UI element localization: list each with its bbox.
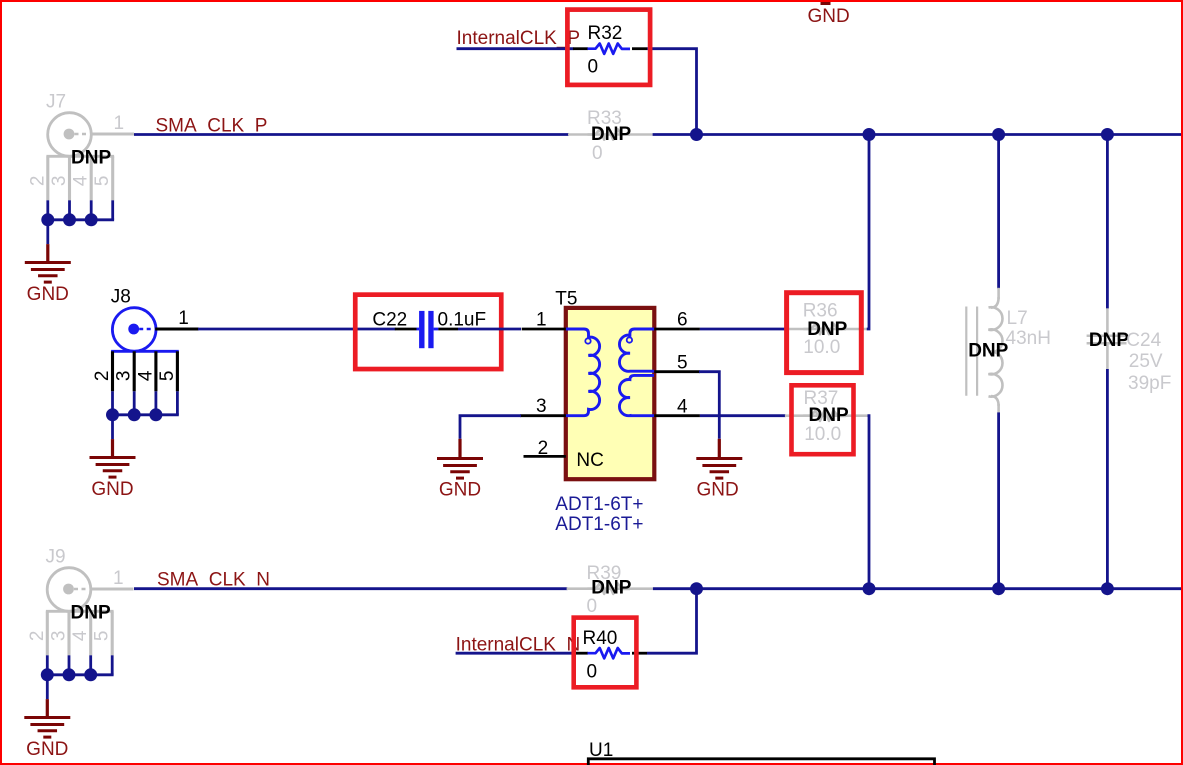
J7 pin 1 — [91, 132, 135, 135]
ground below J7 — [46, 220, 49, 244]
svg-text:2: 2 — [92, 371, 113, 382]
highlight box R37 — [792, 385, 854, 454]
J9 pin 2 — [46, 611, 49, 655]
svg-text:L7: L7 — [1007, 308, 1028, 329]
wire SMA_CLK_N left segment — [134, 587, 568, 590]
junction — [1101, 128, 1114, 141]
highlight box R40 — [574, 618, 637, 688]
svg-text:0: 0 — [587, 596, 598, 617]
svg-text:1: 1 — [113, 568, 124, 589]
junction — [863, 128, 876, 141]
svg-text:InternalCLK_P: InternalCLK_P — [457, 28, 581, 49]
svg-text:GND: GND — [26, 739, 68, 760]
junction — [106, 408, 119, 421]
T5 pin 6 — [654, 328, 700, 331]
wire L7 down to SMA_CLK_N — [997, 412, 1000, 588]
ground (top, clipped) — [821, 2, 831, 5]
svg-text:3: 3 — [114, 371, 135, 382]
svg-text:43nH: 43nH — [1006, 328, 1051, 349]
svg-text:4: 4 — [71, 175, 92, 186]
svg-text:GND: GND — [808, 6, 850, 27]
J9 pin 1 — [90, 587, 134, 590]
junction — [690, 582, 703, 595]
wire T5 pin4 to R37 — [700, 414, 786, 417]
svg-text:GND: GND — [439, 480, 481, 501]
capacitor C24 (DNP) — [1087, 308, 1172, 394]
svg-text:2: 2 — [27, 176, 48, 187]
svg-text:C22: C22 — [372, 310, 407, 331]
svg-text:0: 0 — [592, 143, 603, 164]
svg-text:DNP: DNP — [1089, 330, 1129, 351]
svg-text:C24: C24 — [1126, 330, 1161, 351]
junction — [149, 408, 162, 421]
junction — [863, 582, 876, 595]
J9 pin block bar — [46, 610, 114, 613]
J8 pin 5 — [176, 351, 179, 391]
J8 pin 2 — [111, 351, 114, 391]
wire SMA_CLK_P right segment — [653, 133, 1181, 136]
J7 pin 3 — [68, 156, 71, 200]
wire T5 pin6 to R36 — [700, 328, 785, 331]
T5 pin 4 — [654, 414, 700, 417]
T5 secondary winding upper — [619, 329, 654, 371]
svg-text:39pF: 39pF — [1128, 373, 1171, 394]
highlight box R32 — [567, 10, 650, 85]
wire SMA_CLK_N right segment — [653, 587, 1181, 590]
svg-text:5: 5 — [92, 176, 113, 187]
junction — [992, 128, 1005, 141]
svg-text:ADT1-6T+: ADT1-6T+ — [555, 494, 643, 515]
highlight box C22 — [355, 295, 501, 369]
svg-text:4: 4 — [677, 396, 688, 417]
J7 pin 2 — [46, 156, 49, 200]
svg-text:R40: R40 — [583, 628, 618, 649]
wire down to C24 — [1106, 135, 1109, 309]
resistor R40 — [573, 628, 647, 683]
J8 pin block bar — [111, 350, 179, 353]
svg-text:GND: GND — [27, 284, 69, 305]
junction — [690, 128, 703, 141]
J9 ground bus wire — [47, 673, 113, 676]
svg-text:4: 4 — [135, 370, 156, 381]
ground at T5 pin5 — [718, 372, 721, 439]
svg-text:3: 3 — [536, 396, 547, 417]
resistor R33 (DNP) — [568, 108, 653, 164]
svg-text:2: 2 — [538, 438, 549, 459]
svg-text:DNP: DNP — [809, 405, 849, 426]
svg-text:25V: 25V — [1129, 351, 1163, 372]
connector J8 body circle — [112, 308, 156, 352]
highlight box R36 — [787, 293, 862, 373]
wire R37 down to SMA_CLK_N — [868, 416, 870, 587]
svg-text:2: 2 — [27, 631, 48, 642]
J8 pin 3 — [133, 351, 136, 391]
svg-text:R32: R32 — [588, 23, 623, 44]
J9 pin 4 — [89, 611, 92, 655]
J8 ground bus wire — [113, 413, 179, 416]
svg-text:10.0: 10.0 — [803, 337, 840, 358]
junction — [992, 582, 1005, 595]
connector J7 body circle — [48, 113, 92, 157]
T5 pin 1 — [522, 328, 566, 331]
junction — [1101, 582, 1114, 595]
svg-text:DNP: DNP — [71, 602, 111, 623]
J7 pin 5 — [111, 156, 114, 200]
wire J8 to C22 — [198, 328, 396, 331]
wire R36 up to SMA_CLK_P — [867, 136, 869, 329]
resistor R39 (DNP) — [567, 563, 653, 617]
resistor R32 — [573, 23, 647, 78]
svg-text:DNP: DNP — [591, 124, 631, 145]
svg-text:0: 0 — [588, 57, 599, 78]
connector J9 body circle — [47, 568, 91, 612]
ground at T5 pin3 — [459, 416, 462, 439]
wire T5 pin3 to ground — [460, 414, 521, 417]
inductor L7 (DNP) — [966, 288, 1051, 413]
J7 pin 4 — [90, 156, 93, 200]
svg-text:GND: GND — [91, 479, 133, 500]
transformer T5 — [555, 289, 654, 480]
capacitor C22 — [372, 310, 486, 349]
junction — [63, 213, 76, 226]
svg-text:1: 1 — [178, 308, 189, 329]
svg-text:4: 4 — [70, 630, 91, 641]
wire R32 to SMA_CLK_P junction — [647, 49, 697, 135]
svg-text:5: 5 — [677, 352, 688, 373]
svg-text:6: 6 — [677, 310, 688, 331]
svg-text:ADT1-6T+: ADT1-6T+ — [555, 514, 643, 535]
wire down to L7 — [997, 135, 1000, 289]
J8 pin 4 — [154, 351, 157, 391]
svg-text:3: 3 — [49, 176, 70, 187]
svg-text:5: 5 — [157, 371, 178, 382]
wire C24 down to SMA_CLK_N — [1106, 369, 1109, 589]
T5 pin 2 (NC stub) — [524, 455, 566, 458]
J9 pin 3 — [67, 611, 70, 655]
ground below J8 — [111, 415, 114, 439]
svg-text:DNP: DNP — [71, 147, 111, 168]
T5 secondary winding lower — [619, 375, 654, 415]
svg-text:J9: J9 — [46, 547, 66, 568]
J7 ground bus wire — [48, 218, 114, 221]
svg-text:5: 5 — [92, 631, 113, 642]
T5 pin 3 — [520, 414, 566, 417]
wire InternalCLK_N to R40 — [456, 652, 574, 655]
svg-text:J7: J7 — [46, 92, 66, 113]
wire InternalCLK_P to R32 — [457, 47, 574, 50]
svg-text:10.0: 10.0 — [804, 424, 841, 445]
junction — [85, 213, 98, 226]
svg-text:0: 0 — [587, 661, 598, 682]
junction — [128, 408, 141, 421]
junction — [41, 668, 54, 681]
svg-text:SMA_CLK_N: SMA_CLK_N — [157, 569, 270, 590]
wire R40 up to SMA_CLK_N junction — [647, 589, 697, 654]
J7 pin block bar — [46, 155, 114, 158]
svg-text:GND: GND — [696, 480, 738, 501]
resistor R36 (DNP) — [784, 301, 866, 358]
junction — [63, 668, 76, 681]
J9 pin 5 — [111, 611, 114, 655]
T5 primary winding — [566, 329, 600, 416]
T5 pin 5 — [654, 370, 700, 373]
ground below J9 — [46, 675, 49, 699]
svg-text:DNP: DNP — [591, 577, 631, 598]
junction — [41, 213, 54, 226]
junction — [84, 668, 97, 681]
J8 pin 1 — [155, 327, 199, 330]
wire T5 pin5 to ground — [699, 370, 719, 373]
svg-text:1: 1 — [114, 113, 125, 134]
wire C22 to T5 pin1 — [458, 328, 521, 331]
resistor R37 (DNP) — [785, 388, 868, 445]
wire SMA_CLK_P left segment — [134, 133, 569, 136]
svg-text:J8: J8 — [111, 287, 131, 308]
svg-text:DNP: DNP — [968, 340, 1008, 361]
svg-text:1: 1 — [536, 310, 547, 331]
svg-text:NC: NC — [576, 450, 603, 471]
svg-text:3: 3 — [49, 631, 70, 642]
svg-text:0.1uF: 0.1uF — [438, 310, 487, 331]
